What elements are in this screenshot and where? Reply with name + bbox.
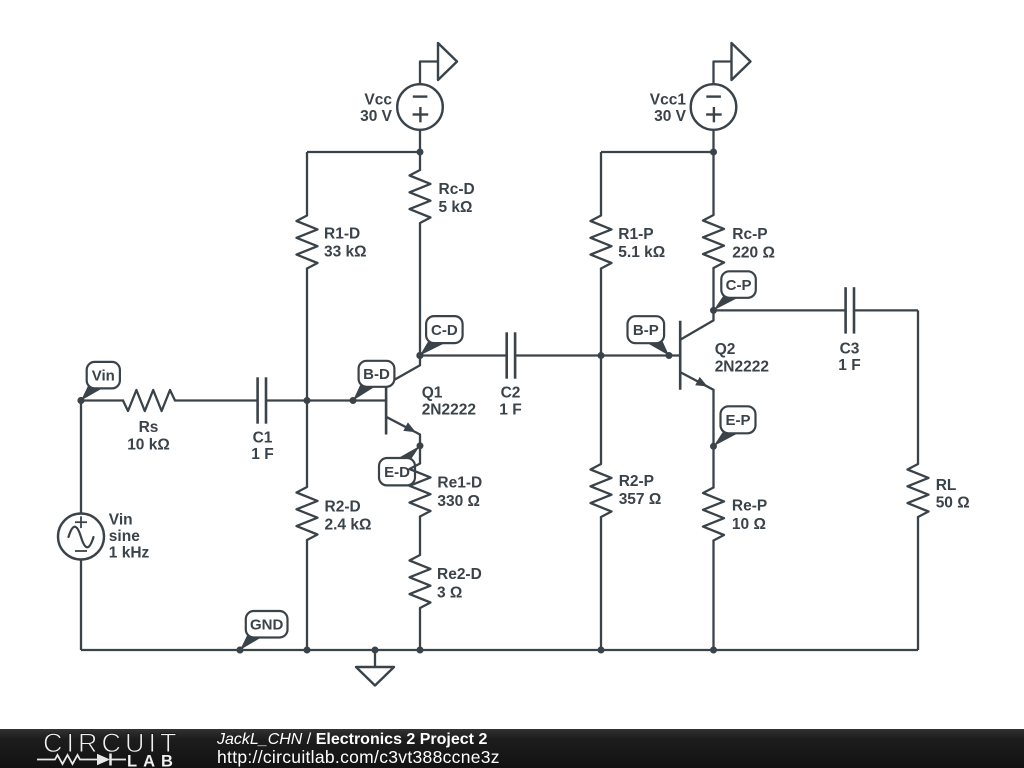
footer bar: [0, 729, 1024, 768]
wire C2 coupling wire y=355.5: [420, 354, 680, 356]
transistor Q2 2N2222: [680, 310, 769, 446]
resistor Re1-D 330: [410, 464, 483, 517]
power flag Vcc: [420, 43, 457, 85]
svg-text:Re1-D: Re1-D: [437, 475, 482, 492]
svg-text:RL: RL: [936, 477, 957, 494]
svg-text:Vin: Vin: [109, 512, 133, 529]
svg-text:Rs: Rs: [139, 419, 159, 436]
node E-D flag: [379, 442, 424, 485]
svg-text:C2: C2: [501, 385, 521, 402]
svg-text:R1-D: R1-D: [324, 226, 360, 243]
svg-text:C-P: C-P: [726, 277, 752, 294]
svg-text:B-D: B-D: [363, 366, 390, 383]
node junction Vcc1 rail: [710, 149, 717, 156]
capacitor C2: [499, 332, 521, 418]
transistor Q1 2N2222: [386, 356, 476, 446]
footer title text: [216, 731, 500, 767]
svg-text:30 V: 30 V: [360, 108, 393, 125]
wire main input wire y=400.5: [81, 399, 386, 401]
svg-text:10 Ω: 10 Ω: [732, 516, 766, 533]
svg-text:1 F: 1 F: [251, 446, 273, 463]
svg-text:JackL_CHN / Electronics 2 Proj: JackL_CHN / Electronics 2 Project 2: [216, 731, 487, 748]
wire bottom ground rail y=650: [81, 649, 918, 651]
svg-text:2N2222: 2N2222: [422, 402, 476, 419]
svg-text:LAB: LAB: [127, 752, 179, 768]
svg-text:5 kΩ: 5 kΩ: [439, 199, 473, 216]
svg-text:B-P: B-P: [633, 322, 659, 339]
wire Q2 emitter chain x=713.5: [712, 447, 714, 650]
svg-text:Vcc1: Vcc1: [650, 92, 687, 109]
svg-text:1 kHz: 1 kHz: [109, 545, 150, 562]
resistor R1-D 33k: [297, 216, 367, 269]
svg-text:Vcc: Vcc: [364, 92, 392, 109]
wire Vcc1 column x=713.5: [712, 130, 714, 311]
node GND flag: [237, 611, 288, 654]
voltage source Vcc 30V: [360, 84, 443, 130]
resistor Rc-D 5k: [410, 170, 475, 223]
svg-text:Re-P: Re-P: [732, 498, 767, 515]
resistor Rc-P 220: [703, 215, 775, 268]
capacitor C1: [251, 377, 273, 463]
resistor Re-P 10: [703, 488, 767, 541]
node Vin flag: [78, 362, 120, 404]
svg-text:GND: GND: [250, 617, 284, 634]
svg-text:357 Ω: 357 Ω: [619, 491, 662, 508]
voltage source Vin sine 1kHz: [58, 512, 150, 562]
svg-text:Q2: Q2: [715, 341, 736, 358]
node B-P flag: [628, 316, 673, 359]
svg-text:Vin: Vin: [92, 367, 115, 384]
wire R1-P/R2-P branch x=601: [600, 152, 602, 650]
svg-text:220 Ω: 220 Ω: [732, 245, 775, 262]
wire top rail 1 y=152: [307, 151, 420, 153]
svg-text:5.1 kΩ: 5.1 kΩ: [618, 244, 665, 261]
ground symbol: [356, 650, 394, 686]
svg-text:330 Ω: 330 Ω: [437, 493, 480, 510]
wire R1-D/R2-D branch x=307: [306, 152, 308, 650]
CircuitLab logo: [37, 728, 181, 768]
voltage source Vcc1 30V: [650, 84, 737, 130]
node B-D flag: [350, 361, 395, 404]
svg-text:Rc-D: Rc-D: [439, 181, 475, 198]
node junction Vcc rail: [417, 149, 424, 156]
svg-text:10 kΩ: 10 kΩ: [127, 437, 170, 454]
node E-P flag: [710, 406, 756, 450]
svg-text:1 F: 1 F: [838, 357, 860, 374]
svg-text:C3: C3: [840, 341, 860, 358]
wire C3 output wire y=310.4: [714, 309, 919, 311]
svg-text:Rc-P: Rc-P: [732, 226, 767, 243]
svg-text:http://circuitlab.com/c3vt388c: http://circuitlab.com/c3vt388ccne3z: [217, 747, 500, 767]
svg-text:R2-P: R2-P: [619, 473, 654, 490]
power flag Vcc1: [714, 43, 751, 85]
node junction dots: [78, 352, 718, 654]
node C-D flag: [416, 316, 462, 359]
wire RL branch x=918: [917, 310, 919, 650]
wire Vin source branch x=81: [80, 401, 82, 651]
resistor Re2-D 3: [410, 555, 482, 608]
svg-text:E-D: E-D: [384, 464, 410, 481]
svg-text:C1: C1: [253, 430, 273, 447]
svg-text:2.4 kΩ: 2.4 kΩ: [325, 517, 372, 534]
svg-text:R2-D: R2-D: [325, 499, 361, 516]
svg-text:33 kΩ: 33 kΩ: [324, 244, 367, 261]
svg-text:50 Ω: 50 Ω: [936, 495, 970, 512]
wire Vcc column x=420: [419, 130, 421, 356]
svg-text:1 F: 1 F: [499, 402, 521, 419]
svg-text:Q1: Q1: [422, 385, 443, 402]
wire emitter chain x=420: [419, 446, 421, 650]
svg-text:30 V: 30 V: [654, 108, 687, 125]
resistor R2-D 2.4k: [297, 487, 372, 540]
svg-text:E-P: E-P: [725, 412, 750, 429]
wire top rail 2 y=152: [601, 151, 714, 153]
svg-text:3 Ω: 3 Ω: [437, 585, 462, 602]
node C-P flag: [710, 271, 756, 314]
svg-text:C-D: C-D: [431, 322, 458, 339]
capacitor C3: [838, 287, 860, 374]
svg-text:2N2222: 2N2222: [715, 358, 769, 375]
resistor RL 50: [908, 464, 970, 517]
svg-text:R1-P: R1-P: [618, 226, 653, 243]
resistor R2-P 357: [591, 464, 662, 517]
resistor R1-P 5.1k: [591, 216, 666, 269]
resistor Rs: [123, 390, 175, 454]
svg-text:sine: sine: [109, 528, 140, 545]
svg-text:Re2-D: Re2-D: [437, 566, 482, 583]
